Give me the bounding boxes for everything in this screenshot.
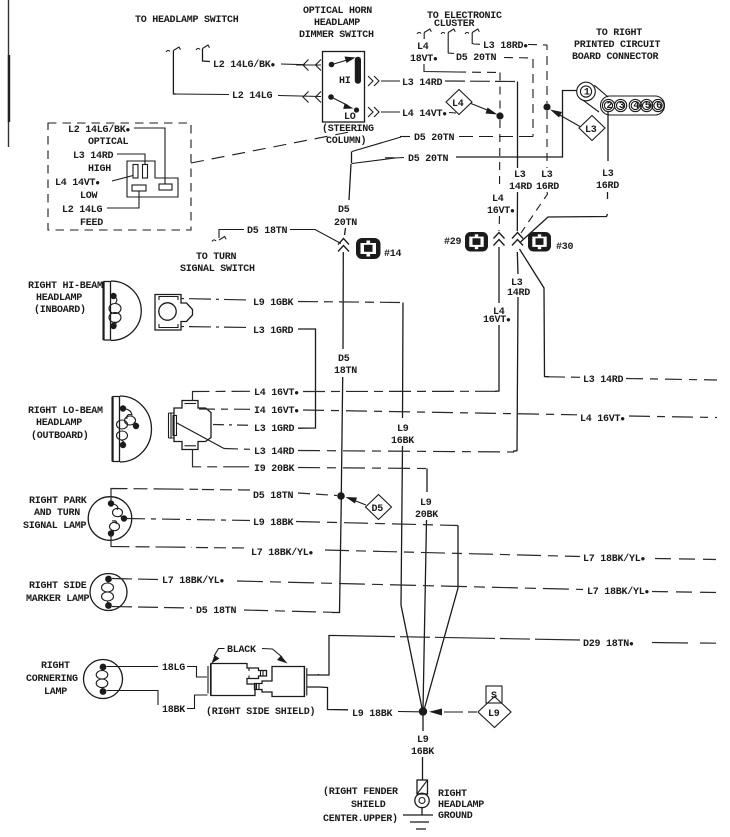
side marker filament coil xyxy=(107,579,110,584)
svg-text:(INBOARD): (INBOARD) xyxy=(34,304,86,316)
svg-text:L9: L9 xyxy=(397,424,409,435)
wire: row D continues right xyxy=(237,581,583,590)
wire: lo-beam row2 L4 16VT full across xyxy=(199,408,250,410)
wire: below #29 chevron solid down to L4 16VT row corner xyxy=(495,247,499,391)
arrow from L3 diamond to splice dot xyxy=(557,114,580,127)
svg-text:L2 14LG: L2 14LG xyxy=(62,205,103,216)
svg-text:RIGHT: RIGHT xyxy=(438,789,467,800)
svg-text:HEADLAMP: HEADLAMP xyxy=(36,418,82,429)
wire: lo-beam row5 L9 20BK xyxy=(193,450,251,467)
off-page arrow symbol 1 (to headlamp switch) xyxy=(166,50,170,52)
svg-text:LO: LO xyxy=(344,112,356,123)
lo-beam filament coils xyxy=(123,409,132,420)
wire: high label to pin 2 xyxy=(117,154,145,165)
wire: PCB pin1 left and down (D5 20TN) xyxy=(456,91,577,158)
wire: lo-beam row3 L3 1GRD xyxy=(213,424,250,427)
svg-text:18BK: 18BK xyxy=(162,705,185,716)
svg-text:L9 18BK: L9 18BK xyxy=(253,518,294,529)
grommet #14 symbol xyxy=(356,238,381,259)
svg-text:AND TURN: AND TURN xyxy=(34,508,80,519)
svg-text:L4 16VT●: L4 16VT● xyxy=(580,414,625,425)
svg-text:6: 6 xyxy=(656,101,662,112)
wire: row E to D5 vertical bottom corner xyxy=(244,610,340,613)
splice dot L3 xyxy=(543,103,550,110)
wire: long vertical L3 14RD from switch to lo-beam row xyxy=(513,82,518,452)
wire: 18LG lead xyxy=(107,666,159,668)
svg-text:D5: D5 xyxy=(338,205,350,216)
cornering lamp E5 xyxy=(84,660,123,699)
svg-text:L7 18BK/YL●: L7 18BK/YL● xyxy=(583,553,646,565)
inline connector chevrons #29 xyxy=(494,233,505,246)
svg-text:16RD: 16RD xyxy=(536,182,559,193)
lo-beam lamp E2 (D-shape sealed beam) xyxy=(112,396,151,462)
wire: row4 continues right to vertical x518 xyxy=(298,451,514,453)
svg-text:RIGHT LO-BEAM: RIGHT LO-BEAM xyxy=(28,406,103,417)
svg-text:L4 14VT●: L4 14VT● xyxy=(402,109,447,120)
page edge artifact line xyxy=(8,0,10,147)
svg-text:L4 14VT●: L4 14VT● xyxy=(55,178,100,189)
wire: switch to L4 14VT label xyxy=(381,111,400,113)
wire: arrow1 corner to L2 14LG label xyxy=(173,93,229,96)
wire: 18BK jog to left shield connector xyxy=(187,695,208,709)
detail connector pin 2 xyxy=(143,165,148,179)
hi-beam filament coil xyxy=(114,296,117,303)
wire: L3 14RD right row xyxy=(549,376,580,379)
switch input contact dot (hi circuit) xyxy=(329,62,335,68)
svg-text:BLACK: BLACK xyxy=(227,645,256,656)
svg-text:L7 18BK/YL●: L7 18BK/YL● xyxy=(587,586,650,598)
svg-text:L3: L3 xyxy=(585,125,597,136)
PCB pin 5 xyxy=(641,99,653,111)
PCB pin 3 xyxy=(615,99,627,111)
switch wiper arrow to HI xyxy=(332,60,349,65)
hi-beam connector cavity circle xyxy=(159,303,176,320)
wire: L9 1GBK to corner x403 xyxy=(298,302,403,303)
wire: L3 1GRD row from connector xyxy=(181,327,250,328)
callout dashed diagonal from box to steering column xyxy=(191,131,357,164)
wire: L4 14VT label to L4 splice diamond xyxy=(449,112,456,115)
bottom junction dot (ground splice) xyxy=(419,707,427,715)
svg-text:D29 18TN●: D29 18TN● xyxy=(583,639,634,650)
svg-text:HEADLAMP: HEADLAMP xyxy=(36,293,82,304)
wire: D5 20TN dashed to corner and down xyxy=(504,58,533,137)
PCB pin 6 xyxy=(652,99,664,111)
svg-text:18LG: 18LG xyxy=(162,663,185,674)
svg-text:CLUSTER: CLUSTER xyxy=(434,19,475,30)
wire: row2 continues right across page xyxy=(303,410,577,415)
connector chevrons into switch (left, L2 14LG) xyxy=(303,92,321,103)
detail callout dashed box (switch connector detail) xyxy=(48,123,191,230)
wire: long vertical L9 16BK x403 down to bend xyxy=(401,303,422,710)
svg-text:HIGH: HIGH xyxy=(88,164,111,175)
svg-text:L4: L4 xyxy=(492,194,504,205)
svg-text:14RD: 14RD xyxy=(509,182,532,193)
svg-text:D5 18TN: D5 18TN xyxy=(196,606,237,617)
svg-text:SIGNAL LAMP: SIGNAL LAMP xyxy=(23,521,87,532)
svg-text:COLUMN): COLUMN) xyxy=(326,135,366,147)
svg-text:I9 20BK: I9 20BK xyxy=(254,464,295,475)
svg-text:20BK: 20BK xyxy=(415,510,438,521)
wire: feed label to pin 3 xyxy=(107,191,139,208)
arrow from S/L9 splice to junction dot xyxy=(468,711,477,713)
svg-text:I4 16VT●: I4 16VT● xyxy=(254,406,299,417)
svg-text:CORNERING: CORNERING xyxy=(26,674,78,685)
svg-text:L4 16VT●: L4 16VT● xyxy=(254,388,299,399)
svg-text:#30: #30 xyxy=(556,242,574,253)
svg-text:TO HEADLAMP SWITCH: TO HEADLAMP SWITCH xyxy=(135,15,239,26)
svg-text:16RD: 16RD xyxy=(596,181,619,192)
switch HI contact bar xyxy=(355,57,361,84)
wire: park row C L7 18BK/YL xyxy=(111,535,192,547)
splice diamond D5 xyxy=(366,495,392,520)
svg-text:PRINTED CIRCUIT: PRINTED CIRCUIT xyxy=(574,40,661,51)
wire: stem down to D5 20TN xyxy=(448,33,454,54)
detail connector pin 3 (feed) xyxy=(132,185,146,191)
wire: 18LG jog to left shield connector xyxy=(187,667,207,678)
wire: L9 18BK from right connector down to junction xyxy=(307,687,349,710)
svg-text:20TN: 20TN xyxy=(334,218,357,229)
svg-text:(RIGHT SIDE SHIELD): (RIGHT SIDE SHIELD) xyxy=(206,706,315,718)
splice symbol S/L9 xyxy=(478,686,511,728)
svg-text:L9 1GBK: L9 1GBK xyxy=(253,298,294,309)
junction dot park D5 xyxy=(337,492,345,500)
wire: L3 18RD dashed to corner and down to splice dot xyxy=(528,45,547,104)
svg-text:16VT●: 16VT● xyxy=(487,206,515,217)
svg-text:D5 20TN: D5 20TN xyxy=(414,133,455,144)
PCB pin 1 xyxy=(580,86,591,97)
ground symbol xyxy=(421,808,423,815)
svg-text:GROUND: GROUND xyxy=(438,811,473,822)
wire: switch to L3 14RD label xyxy=(381,80,400,82)
svg-text:OPTICAL HORN: OPTICAL HORN xyxy=(303,6,372,17)
wire: side marker row E D5 18TN xyxy=(112,607,192,609)
svg-text:5: 5 xyxy=(645,101,651,112)
right shield connector half xyxy=(255,667,307,697)
svg-text:2: 2 xyxy=(607,101,613,112)
off-page arrow symbol (cluster, D5 20TN) xyxy=(441,29,455,34)
PCB pin 2 xyxy=(602,99,614,111)
svg-text:D5 18TN: D5 18TN xyxy=(253,491,294,502)
grommet #30 symbol xyxy=(528,232,551,252)
wire: L3 14RD label to corner, down long vertical xyxy=(445,80,518,83)
wire: lo-beam row1 L4 16VT xyxy=(193,391,251,400)
svg-text:HEADLAMP: HEADLAMP xyxy=(314,18,360,29)
svg-text:L3 14RD: L3 14RD xyxy=(583,375,624,386)
wire: optical label to pin 4 xyxy=(134,128,165,184)
connector chevrons out of switch (right, L3 14RD) xyxy=(368,76,379,86)
svg-text:L3 14RD: L3 14RD xyxy=(402,78,443,89)
svg-text:D5: D5 xyxy=(372,504,384,515)
wire: side marker row D L7 18BK/YL xyxy=(112,579,158,580)
svg-text:OPTICAL: OPTICAL xyxy=(88,137,129,148)
hi-beam connector body xyxy=(155,295,193,331)
svg-text:RIGHT: RIGHT xyxy=(41,661,70,672)
svg-text:LOW: LOW xyxy=(80,191,98,202)
park lamp filament coils xyxy=(111,504,118,511)
svg-text:L3: L3 xyxy=(514,170,526,181)
inline connector chevrons #14 xyxy=(338,239,349,252)
wire: D5 18TN from turn-signal arrow to D5 vertical xyxy=(219,230,244,239)
svg-text:SIGNAL SWITCH: SIGNAL SWITCH xyxy=(180,264,255,275)
detail connector pin 1 xyxy=(133,165,138,179)
svg-text:(STEERING: (STEERING xyxy=(322,123,374,135)
wire: L2 14LG/BK to switch chevrons xyxy=(281,63,305,66)
connector chevrons into switch (left, L2 14LG/BK) xyxy=(303,60,321,71)
svg-text:DIMMER SWITCH: DIMMER SWITCH xyxy=(299,30,374,41)
wire: park row A D5 18TN xyxy=(111,489,198,503)
wire: stem down from arrow 1 to L2 14LG row xyxy=(173,51,176,95)
wire: park row B L9 18BK xyxy=(127,519,250,521)
side marker lamp E4 xyxy=(90,574,127,611)
svg-text:TO TURN: TO TURN xyxy=(196,252,237,263)
svg-text:TO RIGHT: TO RIGHT xyxy=(596,28,642,39)
wire: D29 18TN from right connector jog up to row xyxy=(307,636,336,676)
svg-text:#29: #29 xyxy=(444,237,462,248)
svg-text:14RD: 14RD xyxy=(507,288,530,299)
wire: stem down to L3 18RD xyxy=(472,33,480,45)
wire: from #30 chevron diagonal down-right to L3 14RD right row xyxy=(520,249,550,377)
wire: dashed below L3 splice to 16RD label and diagonal to grommet 30 xyxy=(521,111,548,233)
inline connector chevrons #30 xyxy=(512,233,523,246)
detail connector body xyxy=(127,161,178,197)
left shield connector half xyxy=(208,664,267,696)
switch LO contact dot xyxy=(354,107,359,112)
svg-text:L9: L9 xyxy=(488,709,500,720)
wire: low label to pin 1 xyxy=(112,176,133,182)
wire: L3 1GRD to corner x316 down to lobeam row3 xyxy=(298,329,316,428)
off-page arrow symbol (cluster, L4 18VT) xyxy=(417,29,431,34)
svg-text:CENTER.UPPER): CENTER.UPPER) xyxy=(323,813,398,825)
svg-text:HI: HI xyxy=(339,76,351,87)
detail connector pin 4 (optical) xyxy=(159,184,172,190)
wire: row1 to corner below #29 xyxy=(303,390,495,392)
wire: row C continues right xyxy=(325,550,580,557)
off-page arrow symbol (to turn signal switch) xyxy=(212,237,226,242)
splice diamond L4 xyxy=(446,90,472,115)
wire: L4 18VT down and over to splice vertical xyxy=(424,64,457,72)
off-page arrow symbol 2 (to headlamp switch) xyxy=(196,48,200,50)
svg-text:HEADLAMP: HEADLAMP xyxy=(438,800,484,811)
svg-text:L9: L9 xyxy=(417,735,429,746)
hi-beam filament dots xyxy=(110,293,116,299)
svg-text:#14: #14 xyxy=(384,249,402,260)
wire: L2 14LG label to switch chevrons xyxy=(278,96,321,97)
svg-text:D5: D5 xyxy=(338,354,350,365)
svg-text:3: 3 xyxy=(619,101,625,112)
svg-text:FEED: FEED xyxy=(80,218,103,229)
wire: D29 18TN row right xyxy=(335,636,580,641)
wire: D5 20TN label2 to D5 vertical xyxy=(352,158,404,164)
svg-text:RIGHT PARK: RIGHT PARK xyxy=(29,496,87,507)
svg-text:L3: L3 xyxy=(541,170,553,181)
svg-text:MARKER LAMP: MARKER LAMP xyxy=(26,594,90,605)
svg-text:18VT●: 18VT● xyxy=(410,54,438,65)
svg-text:L3 18RD●: L3 18RD● xyxy=(483,41,528,52)
switch wiper arrow to LO xyxy=(331,97,348,106)
svg-text:L4: L4 xyxy=(417,42,429,53)
svg-text:D5 20TN: D5 20TN xyxy=(408,154,449,165)
wire: junction down to ground xyxy=(422,716,424,732)
grommet #29 symbol xyxy=(465,232,488,252)
svg-text:L2 14LG/BK●: L2 14LG/BK● xyxy=(68,124,131,136)
wire: PCB pin2 down (L3 16RD) xyxy=(521,112,609,242)
svg-text:16BK: 16BK xyxy=(411,747,434,758)
svg-text:L9 18BK: L9 18BK xyxy=(352,709,393,720)
arrow from L4 diamond to splice dot xyxy=(471,104,491,112)
svg-text:D5 20TN: D5 20TN xyxy=(456,53,497,64)
svg-text:4: 4 xyxy=(633,101,639,112)
wire: row5 to corner x427 down to bottom junction xyxy=(298,468,427,469)
svg-text:18TN: 18TN xyxy=(334,366,357,377)
wire: D5 vertical from corner through #14 chevron down to park junction xyxy=(332,152,352,613)
svg-text:L2 14LG: L2 14LG xyxy=(232,91,273,102)
off-page arrow symbol (cluster, L3 18RD) xyxy=(465,29,479,34)
svg-text:LAMP: LAMP xyxy=(44,687,67,698)
arrow from D5 diamond to junction dot xyxy=(352,500,366,506)
svg-text:(OUTBOARD): (OUTBOARD) xyxy=(31,430,89,442)
switch input contact dot (lo circuit) xyxy=(328,94,334,100)
wire: L9 1GBK row from connector xyxy=(181,299,250,301)
svg-text:L7 18BK/YL●: L7 18BK/YL● xyxy=(162,575,225,587)
wire: D5 18TN to junction dot xyxy=(298,493,337,496)
dimmer switch S1 body (steering column) xyxy=(323,52,365,124)
wire: label to ground terminal xyxy=(422,757,424,780)
splice diamond L3 xyxy=(579,116,605,141)
svg-text:1: 1 xyxy=(584,88,590,99)
side marker terminal dots xyxy=(105,576,112,583)
svg-text:L7 18BK/YL●: L7 18BK/YL● xyxy=(251,547,314,559)
wire: 18BK lead xyxy=(107,691,159,706)
wire: dashed vertical L4 (cluster) down through splice to grommet 29 xyxy=(499,73,500,232)
cornering lamp filament coil xyxy=(102,667,105,671)
svg-text:L3 14RD: L3 14RD xyxy=(254,447,295,458)
connector chevrons out of switch (right, L4 14VT) xyxy=(368,107,379,117)
lo-beam connector body xyxy=(169,401,225,450)
svg-text:16BK: 16BK xyxy=(391,436,414,447)
svg-text:L3 14RD: L3 14RD xyxy=(73,151,114,162)
PCB pin 4 xyxy=(629,99,641,111)
svg-text:L3: L3 xyxy=(602,169,614,180)
wire: diagonal joining D5 vertical xyxy=(352,137,401,152)
svg-text:L4: L4 xyxy=(452,99,464,110)
svg-text:RIGHT HI-BEAM: RIGHT HI-BEAM xyxy=(28,281,103,292)
svg-text:L9: L9 xyxy=(420,498,432,509)
lo-beam filament dots xyxy=(120,405,126,411)
wire: stem down from arrow 2 to L2 14LG/BK row xyxy=(203,49,211,62)
lo-beam connector diagonal lead xyxy=(176,423,224,449)
svg-text:BOARD CONNECTOR: BOARD CONNECTOR xyxy=(572,52,659,63)
svg-text:(RIGHT FENDER: (RIGHT FENDER xyxy=(323,786,398,798)
hi-beam lamp E1 (D-shape sealed beam) xyxy=(103,281,141,341)
svg-text:L2 14LG/BK●: L2 14LG/BK● xyxy=(213,59,276,71)
park/turn lamp E3 xyxy=(88,497,132,541)
cornering lamp terminal dots xyxy=(100,664,107,671)
ground terminal eyelet G1 xyxy=(415,780,429,808)
splice dot L4 xyxy=(496,112,503,119)
park lamp terminal dots xyxy=(108,500,114,506)
PCB connector U1 outline xyxy=(577,82,665,115)
arrow: BLACK to left connector xyxy=(214,649,225,657)
wire: lo-beam row4 L3 14RD from diagonal xyxy=(224,448,250,451)
svg-text:RIGHT SIDE: RIGHT SIDE xyxy=(29,581,87,592)
wire: D5 20TN y136 going left to label xyxy=(457,136,533,138)
svg-text:D5 18TN: D5 18TN xyxy=(247,226,288,237)
svg-text:L3 1GRD: L3 1GRD xyxy=(254,424,295,435)
arrow: BLACK to right connector xyxy=(262,649,282,658)
svg-text:16VT●: 16VT● xyxy=(483,315,511,326)
wire: row B to corner x458 down, diagonal to junction xyxy=(296,522,458,526)
svg-text:SHIELD: SHIELD xyxy=(351,800,386,811)
svg-text:L3 1GRD: L3 1GRD xyxy=(253,326,294,337)
